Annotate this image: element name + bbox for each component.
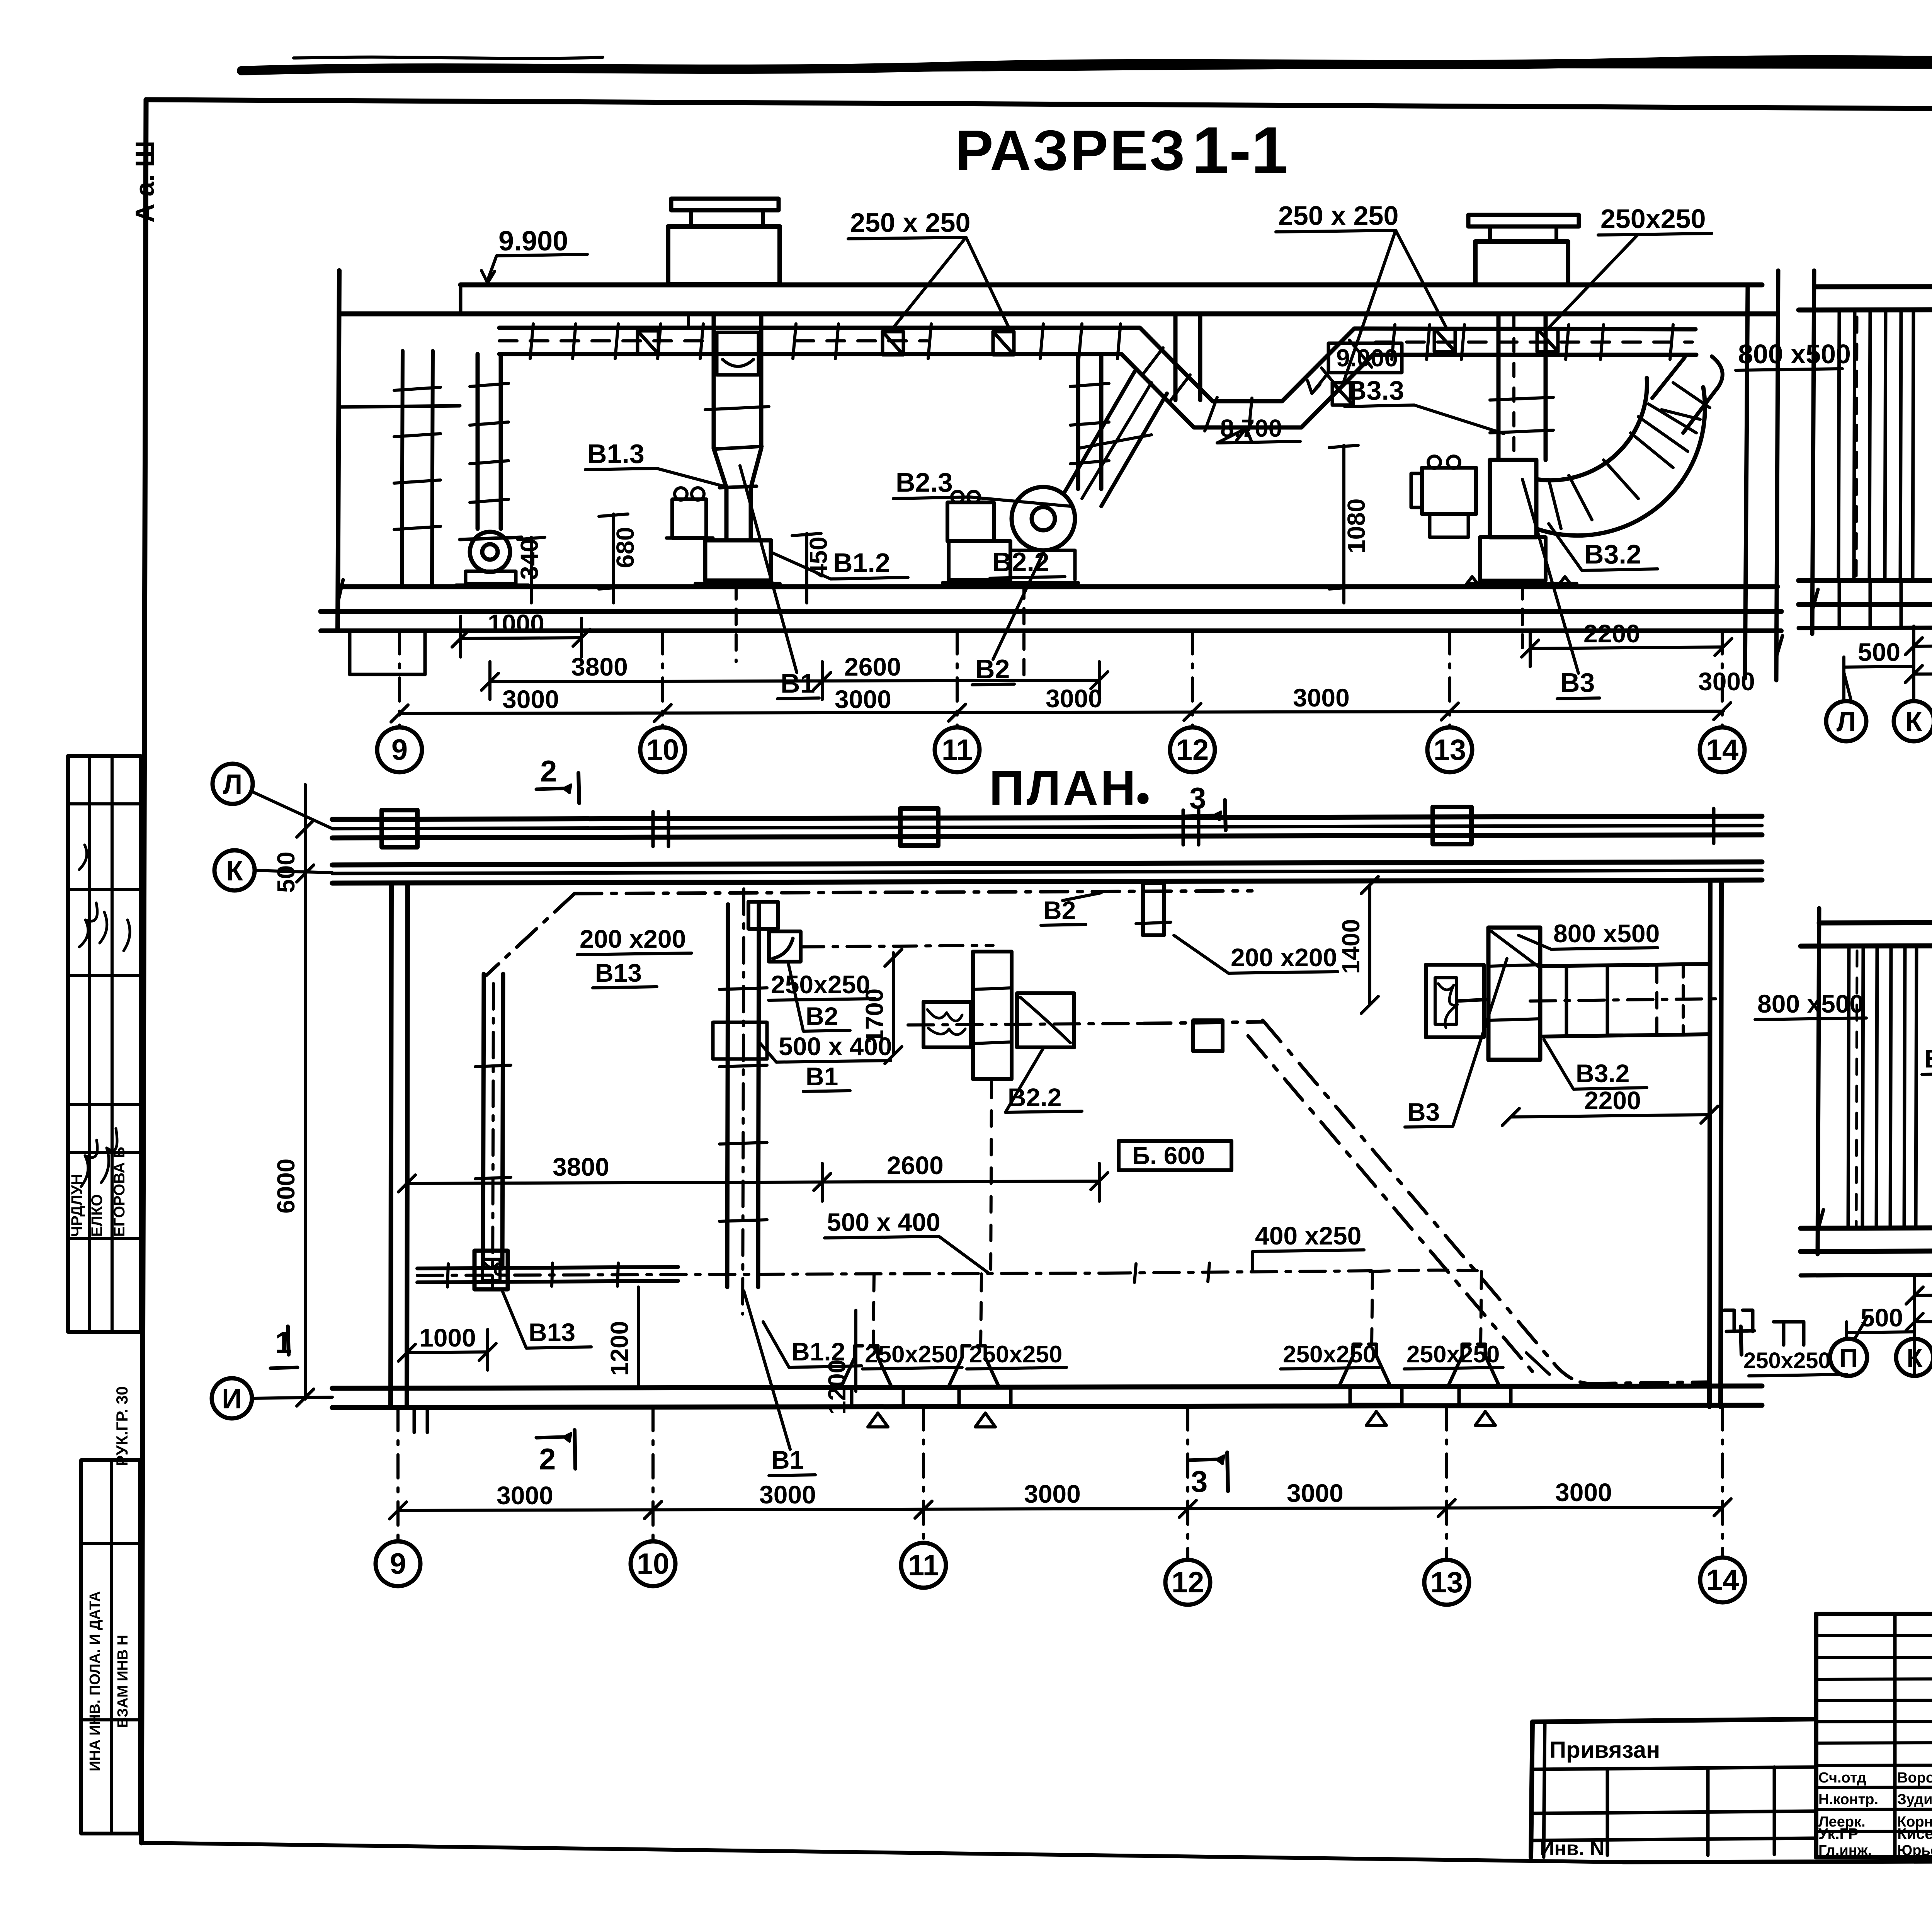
section 1-1 ceiling slab xyxy=(340,285,1777,314)
plan bottom duct 400x250 xyxy=(1105,1263,1481,1345)
riser duct B1.3 left xyxy=(470,354,509,529)
svg-text:В1.2: В1.2 xyxy=(833,548,890,578)
witness dashed B2.2 xyxy=(736,583,1522,680)
svg-text:В2.3: В2.3 xyxy=(896,467,953,497)
svg-text:Зудина: Зудина xyxy=(1897,1791,1932,1808)
section 1-1 right wall xyxy=(1745,271,1782,680)
svg-text:3800: 3800 xyxy=(571,652,628,681)
label 800x500 sec2 left xyxy=(1736,339,1851,370)
plan bubble K xyxy=(214,850,332,890)
plan label B3 xyxy=(1405,958,1507,1127)
svg-text:П: П xyxy=(1839,1343,1858,1373)
sec2 dims bottom xyxy=(1844,617,1932,700)
stamp names rows xyxy=(1818,1748,1932,1859)
plan corridor duct dashdot xyxy=(486,891,1252,976)
svg-text:Н.контр.: Н.контр. xyxy=(1818,1791,1878,1808)
svg-text:РУК.ГР. 30: РУК.ГР. 30 xyxy=(113,1386,131,1466)
plan grid bubbles bottom xyxy=(376,1407,1745,1605)
svg-text:200 x200: 200 x200 xyxy=(580,924,686,953)
label B3 leader xyxy=(1522,479,1600,699)
plan label B13 bottom xyxy=(502,1291,591,1348)
svg-text:РАЗРЕЗ: РАЗРЕЗ xyxy=(955,119,1187,182)
svg-text:250 x 250: 250 x 250 xyxy=(1278,201,1398,231)
left stamp signatures text xyxy=(68,845,130,1237)
B3.2 scroll elbow xyxy=(1536,378,1705,536)
plan section mark 1 right xyxy=(1724,1310,1754,1355)
label B3.2 xyxy=(1549,524,1658,570)
plan B2 takeoff elbow xyxy=(748,902,993,962)
label 250x250 third xyxy=(1549,204,1712,327)
svg-text:12: 12 xyxy=(1176,734,1209,766)
svg-text:3: 3 xyxy=(1191,1464,1207,1498)
margin mark A a. III xyxy=(130,141,160,223)
plan diagonal duct xyxy=(1248,1020,1554,1378)
plan bottom wall I xyxy=(332,1386,1762,1408)
plan diffuser 3 xyxy=(1339,1344,1402,1425)
svg-text:2: 2 xyxy=(540,754,557,788)
B1 motor xyxy=(667,488,713,538)
plan dim 2200 xyxy=(1502,1086,1718,1125)
svg-text:250x250: 250x250 xyxy=(1283,1341,1376,1368)
section 2-2 left wall hatch xyxy=(1838,310,1913,627)
label B2 leader xyxy=(972,553,1043,685)
label B3.3 sec3 xyxy=(1922,1044,1932,1074)
section 1-1 floor slab xyxy=(321,587,1781,674)
plan diffuser 4 xyxy=(1448,1344,1511,1425)
svg-text:2600: 2600 xyxy=(887,1151,944,1180)
svg-text:Л: Л xyxy=(1837,707,1856,737)
label B1.2 xyxy=(772,548,908,579)
svg-text:Гл.инж.: Гл.инж. xyxy=(1818,1842,1872,1859)
svg-text:680: 680 xyxy=(611,527,639,568)
dim 2200 sec1 xyxy=(1522,619,1732,667)
svg-text:Инв. N: Инв. N xyxy=(1540,1837,1604,1860)
plan label 500x400 bottom xyxy=(825,1208,989,1273)
section 1-1 beam at grid 12 xyxy=(1175,314,1200,400)
svg-text:400 x250: 400 x250 xyxy=(1255,1221,1361,1250)
plan duct B1 vertical xyxy=(713,889,767,1314)
svg-text:В3.3: В3.3 xyxy=(1347,375,1404,405)
plan bubble L xyxy=(213,764,332,829)
svg-text:ПЛАН: ПЛАН xyxy=(989,761,1138,815)
plan labels 250x250 diffusers left xyxy=(862,1341,1066,1369)
svg-text:250x250: 250x250 xyxy=(1743,1348,1831,1373)
plan bottom duct 500x400 xyxy=(417,1263,1105,1287)
svg-text:В3.2: В3.2 xyxy=(1576,1059,1629,1088)
svg-text:В1: В1 xyxy=(806,1062,838,1091)
svg-text:9: 9 xyxy=(390,1548,406,1580)
section 3-3 floor slab xyxy=(1801,1226,1932,1275)
plan dim 1200 second xyxy=(823,1310,856,1415)
title RAZREZ 1-1 xyxy=(955,113,1288,187)
grid bubbles section 3-3 xyxy=(1830,1317,1932,1376)
plan label 200x200 right xyxy=(1174,935,1338,973)
svg-text:Б. 600: Б. 600 xyxy=(1132,1142,1205,1170)
plan label 250x250 B2 xyxy=(769,963,875,1031)
plan fan B2.2 xyxy=(908,952,1144,1275)
svg-text:14: 14 xyxy=(1706,734,1739,766)
section 3-3 ceiling slab xyxy=(1801,921,1932,946)
plan wall L band xyxy=(332,816,1762,838)
duct outlet squares 250x250 xyxy=(638,329,1558,405)
plan label 800x500 right outside xyxy=(1755,989,1866,1020)
chimney B3 above roof xyxy=(1468,215,1579,285)
svg-text:1000: 1000 xyxy=(488,609,544,638)
grid bubbles section 1-1 xyxy=(377,631,1745,772)
svg-text:500 x 400: 500 x 400 xyxy=(779,1032,892,1061)
riser duct B2.3 xyxy=(1070,354,1109,489)
svg-text:11: 11 xyxy=(908,1549,939,1582)
svg-text:3800: 3800 xyxy=(553,1153,609,1181)
svg-text:3000: 3000 xyxy=(835,685,891,713)
svg-text:2200: 2200 xyxy=(1583,619,1640,648)
svg-text:2: 2 xyxy=(539,1442,556,1476)
plan grid dim row xyxy=(389,1478,1731,1519)
svg-text:10: 10 xyxy=(646,734,679,766)
svg-text:9: 9 xyxy=(391,734,408,766)
label B1 leader xyxy=(740,466,819,699)
stamp central grid xyxy=(1816,1614,1932,1857)
B3 diagonal to ceiling xyxy=(1652,356,1723,433)
svg-text:2600: 2600 xyxy=(844,652,901,681)
svg-text:800 x500: 800 x500 xyxy=(1553,919,1660,948)
svg-text:9.000: 9.000 xyxy=(1336,344,1398,372)
sec3 dims bottom xyxy=(1847,1252,1932,1376)
svg-text:3000: 3000 xyxy=(497,1481,553,1510)
plan labels 250x250 diffusers right xyxy=(1281,1341,1503,1369)
svg-text:340: 340 xyxy=(515,538,543,580)
plan wall K band xyxy=(332,862,1762,883)
svg-text:200 x200: 200 x200 xyxy=(1231,943,1337,972)
label 250x250 second xyxy=(1276,201,1446,381)
plan dim 1400 xyxy=(1337,877,1378,1013)
svg-text:В1.3: В1.3 xyxy=(587,439,645,469)
elevation 8.700 xyxy=(1217,414,1300,443)
svg-text:В3.3: В3.3 xyxy=(1924,1044,1932,1073)
svg-text:В3: В3 xyxy=(1407,1098,1440,1126)
svg-text:В3.2: В3.2 xyxy=(1584,539,1641,569)
svg-text:И: И xyxy=(222,1384,242,1415)
svg-text:Юрьев: Юрьев xyxy=(1897,1842,1932,1859)
svg-text:Сч.отд: Сч.отд xyxy=(1818,1770,1866,1786)
svg-text:500: 500 xyxy=(1858,638,1900,666)
left stamp table upper xyxy=(68,756,141,1332)
svg-text:В1: В1 xyxy=(771,1445,804,1474)
label B2.2 xyxy=(990,547,1065,578)
section 2-2 floor slab xyxy=(1799,580,1932,628)
plan label B1.2 xyxy=(763,1322,862,1367)
plan dim 3800 2600 xyxy=(398,1151,1108,1201)
fan B3.2 xyxy=(1464,460,1577,587)
svg-text:Киселева: Киселева xyxy=(1897,1825,1932,1842)
scan torn paper top edge xyxy=(241,57,1932,71)
plan label 250x250 right end xyxy=(1743,1322,1847,1376)
svg-text:3000: 3000 xyxy=(1287,1479,1344,1507)
plan diffuser 2 xyxy=(948,1274,1011,1427)
svg-text:Ук.ГР: Ук.ГР xyxy=(1818,1825,1859,1842)
svg-text:3000: 3000 xyxy=(1293,683,1350,712)
grid dim row sec1 xyxy=(391,667,1755,722)
section 1-1 left ledge xyxy=(339,406,460,407)
title PLAN xyxy=(989,761,1146,815)
svg-text:800 x500: 800 x500 xyxy=(1738,339,1851,369)
svg-text:14: 14 xyxy=(1706,1564,1739,1597)
section 1-1 left wall line xyxy=(338,271,343,629)
plan section mark 2 bottom xyxy=(536,1430,575,1476)
section 3-3 left wall hatch xyxy=(1848,946,1917,1228)
svg-text:250x250: 250x250 xyxy=(969,1341,1062,1368)
plan dim 1000 bottom xyxy=(398,1323,496,1370)
plan bubble I xyxy=(212,1378,332,1418)
svg-text:1080: 1080 xyxy=(1342,499,1370,553)
plan section mark 2 top xyxy=(536,754,579,803)
left stamp PYK.GP.30 xyxy=(113,1386,131,1466)
svg-text:3000: 3000 xyxy=(1555,1478,1612,1507)
duct under ceiling top line xyxy=(499,328,1696,401)
svg-text:Л: Л xyxy=(223,769,243,800)
duct hatch ticks xyxy=(530,324,1673,431)
section 1-1 left wall column xyxy=(394,351,440,586)
border frame top xyxy=(146,100,1932,112)
section 2-2 left edge xyxy=(1812,271,1818,634)
svg-text:9.900: 9.900 xyxy=(498,226,568,257)
plan right wall xyxy=(1709,883,1721,1407)
label 250x250 first xyxy=(848,208,1009,329)
duct under ceiling bottom line xyxy=(499,354,1696,427)
stamp table privyazan xyxy=(1531,1719,1816,1860)
plan diagonal elbow to I wall xyxy=(1526,1353,1709,1384)
fan B1.3 left xyxy=(456,532,529,585)
dim 1080 section1 xyxy=(1329,445,1370,603)
plan label B1 bottom xyxy=(744,1291,815,1476)
dim 450 B2.2 xyxy=(792,533,832,603)
label B3.3 section1 xyxy=(1345,375,1504,434)
plan dim 1700 xyxy=(861,949,902,1064)
svg-text:2200: 2200 xyxy=(1584,1086,1641,1115)
plan section mark 3 bottom xyxy=(1188,1452,1228,1498)
dim 340 left fan xyxy=(515,537,545,603)
svg-text:В2.2: В2.2 xyxy=(992,547,1049,577)
svg-text:К: К xyxy=(1905,707,1923,737)
plan dashdot duct to diagonal xyxy=(1144,1022,1264,1023)
svg-text:К: К xyxy=(1906,1343,1923,1373)
dim 1000 sec1 xyxy=(452,609,590,657)
border frame bottom xyxy=(141,1843,1932,1862)
B1 duct below roof xyxy=(689,314,769,448)
elevation 9.900 left xyxy=(481,226,587,283)
plan elevation 6.600 box xyxy=(1119,1141,1231,1170)
svg-text:В2: В2 xyxy=(806,1002,838,1030)
plan diffuser 1 xyxy=(841,1274,903,1427)
svg-text:ЕЛКО: ЕЛКО xyxy=(88,1194,105,1237)
svg-text:К: К xyxy=(226,856,243,887)
svg-text:6000: 6000 xyxy=(272,1159,300,1214)
svg-text:1400: 1400 xyxy=(1337,919,1365,974)
B3 duct below roof xyxy=(1490,314,1553,460)
svg-text:3000: 3000 xyxy=(759,1480,816,1509)
svg-text:13: 13 xyxy=(1434,734,1466,766)
fan B2.2 assembly xyxy=(943,487,1078,583)
svg-text:250x250: 250x250 xyxy=(1600,204,1706,234)
plan wall L columns xyxy=(382,807,1714,847)
plan label 500x400 B1 xyxy=(760,1032,892,1091)
dim 680 xyxy=(599,514,639,603)
svg-text:3000: 3000 xyxy=(1046,684,1102,713)
border frame left xyxy=(141,100,146,1843)
B1 taper and fan xyxy=(696,446,780,584)
svg-text:10: 10 xyxy=(637,1548,670,1580)
plan I wall ticks left xyxy=(414,1408,427,1432)
section 3-3 left edge xyxy=(1818,908,1823,1254)
svg-text:ИНА ИНВ. ПОЛА. И ДАТА: ИНА ИНВ. ПОЛА. И ДАТА xyxy=(87,1591,103,1771)
svg-text:1000: 1000 xyxy=(419,1323,476,1352)
plan K wall duct stub xyxy=(1136,883,1171,935)
svg-text:ВЗАМ ИНВ Н: ВЗАМ ИНВ Н xyxy=(115,1635,131,1728)
svg-text:3000: 3000 xyxy=(502,685,559,713)
svg-text:250x250: 250x250 xyxy=(771,970,870,999)
plan section mark 1 left xyxy=(270,1325,298,1368)
plan dim 1200 rotated xyxy=(605,1287,638,1388)
left stamp table lower xyxy=(81,1460,140,1834)
plan fan B13 xyxy=(474,1251,508,1289)
svg-text:11: 11 xyxy=(942,734,973,766)
svg-text:В13: В13 xyxy=(595,958,642,987)
label B2.3 xyxy=(893,467,1071,506)
section 2-2 ceiling slab xyxy=(1799,286,1932,310)
svg-text:250x250: 250x250 xyxy=(1406,1341,1500,1368)
plan label B2.2 xyxy=(1005,1048,1082,1112)
svg-text:3000: 3000 xyxy=(1024,1479,1081,1508)
svg-text:450: 450 xyxy=(804,536,832,578)
dim 3800 2600 sec1 xyxy=(481,652,1108,700)
svg-text:1200: 1200 xyxy=(605,1321,633,1376)
svg-text:Привязан: Привязан xyxy=(1549,1737,1660,1763)
plan label B2 corridor xyxy=(1041,893,1101,925)
chimney B1 above roof xyxy=(668,199,780,284)
svg-text:Воронецкий: Воронецкий xyxy=(1897,1770,1932,1786)
svg-text:А а. Ш: А а. Ш xyxy=(130,141,160,223)
diagonal duct B2.2 to ceiling xyxy=(1065,372,1167,506)
B3 motor xyxy=(1411,456,1476,537)
svg-text:1-1: 1-1 xyxy=(1192,113,1288,187)
elevation 9.000 boxed xyxy=(1308,343,1402,393)
svg-text:ЕГОРОВА Б: ЕГОРОВА Б xyxy=(111,1147,128,1237)
plan left dim column xyxy=(272,785,314,1406)
plan label B3.2 xyxy=(1544,1040,1647,1089)
svg-text:13: 13 xyxy=(1430,1566,1463,1599)
plan left wall xyxy=(391,883,408,1408)
plan fan B3 assembly xyxy=(1426,928,1540,1060)
svg-text:3000: 3000 xyxy=(1698,667,1755,696)
duct dashed centerline xyxy=(499,341,1692,342)
label B1.3 xyxy=(585,439,726,487)
svg-text:500 x 400: 500 x 400 xyxy=(827,1208,940,1236)
plan label 400x250 xyxy=(1253,1221,1364,1272)
plan label 200x200 B13 xyxy=(577,924,692,988)
svg-text:12: 12 xyxy=(1172,1566,1204,1599)
plan section mark 3 top xyxy=(1185,781,1226,830)
plan box on duct xyxy=(1193,1020,1223,1051)
svg-text:В13: В13 xyxy=(529,1318,575,1347)
svg-text:250 x 250: 250 x 250 xyxy=(850,208,970,238)
grid bubbles section 2-2 xyxy=(1826,672,1932,741)
svg-text:250x250: 250x250 xyxy=(865,1341,958,1368)
plan label 800x500 xyxy=(1519,919,1660,949)
plan duct B13 riser xyxy=(475,974,511,1287)
plan B3 duct right xyxy=(1530,964,1722,1037)
